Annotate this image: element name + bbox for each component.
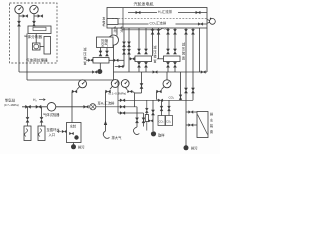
valve V25b [191, 88, 194, 93]
label float drain [210, 112, 214, 134]
svg-text:H₂汇流排: H₂汇流排 [158, 9, 173, 14]
valve V20 [173, 29, 176, 34]
svg-text:水封: 水封 [70, 124, 77, 129]
label to H2 manifold [98, 101, 116, 106]
wire pg3 stem up [82, 79, 84, 81]
label H2 flow arrow [33, 98, 45, 102]
label drop1 [114, 26, 117, 33]
sample dot [151, 131, 156, 136]
wire pg6 up [166, 72, 168, 80]
valve V22 [166, 62, 169, 73]
wire drop x199.5 [199, 28, 201, 72]
label regulator1 [83, 47, 87, 66]
valve V49 [149, 120, 153, 123]
valve V15 [130, 57, 135, 60]
junction dot sample inlet [97, 69, 102, 74]
wire inner crossing [122, 8, 124, 28]
label gas analyzer [24, 34, 42, 39]
valve V26 [99, 51, 102, 56]
svg-text:置: 置 [210, 129, 213, 134]
wire trap drain [73, 143, 75, 145]
water seal bottle WS1 [24, 122, 31, 140]
wire x143.5 drop [143, 113, 145, 127]
gas analyzer box U1 [28, 26, 51, 34]
svg-text:(0.1~0.3MPa): (0.1~0.3MPa) [109, 92, 127, 96]
label vent atmosphere [112, 135, 123, 140]
wire drop x129 [128, 28, 130, 72]
wire stub x158.5 [158, 28, 160, 59]
svg-text:(0.7~1MPa): (0.7~1MPa) [4, 103, 19, 107]
label regulator3 [182, 42, 186, 61]
valve V16 [137, 62, 140, 73]
pressure gauge PG2 [30, 5, 38, 19]
valve V10 [122, 49, 125, 54]
label H2 manifold [157, 9, 178, 14]
valve V39 [84, 105, 89, 108]
wire pg6 stem [161, 87, 164, 90]
valve V55 [62, 130, 66, 133]
valve V38 [36, 105, 41, 108]
wire trap out arrow [58, 130, 62, 132]
wire sample return horizontal [27, 79, 118, 81]
valve V5 [92, 71, 97, 74]
valve V34b [128, 90, 135, 93]
CO2 meter box1 [158, 116, 165, 126]
svg-text:气体试验器: 气体试验器 [43, 112, 60, 117]
generator machine box [107, 19, 118, 25]
valve V33 [72, 90, 77, 93]
label to circulating water [47, 127, 61, 137]
vent1 loop [103, 131, 109, 138]
svg-text:汽轮发电机: 汽轮发电机 [134, 0, 154, 6]
manifold M2 [135, 56, 152, 62]
wire upper return [114, 71, 208, 73]
wire bottle1 drop [27, 107, 29, 117]
blower fan F1 [90, 104, 96, 110]
drain dot D2 [184, 145, 189, 150]
valve V24b [184, 88, 187, 93]
svg-text:置: 置 [153, 58, 156, 63]
wire x137 drop [136, 107, 138, 127]
svg-text:CO₂: CO₂ [166, 120, 171, 124]
wire CO2 manifold [112, 23, 207, 25]
valve V21 [173, 49, 176, 54]
valve V52 [168, 106, 171, 111]
wire pg4 drop [105, 92, 107, 107]
valve V6 on H2 line [136, 11, 141, 14]
wire pump to column [40, 46, 44, 48]
svg-text:取样: 取样 [158, 133, 165, 138]
svg-text:至H₂汇流排: 至H₂汇流排 [98, 101, 116, 106]
valve V37 [25, 105, 30, 108]
wire blower down [113, 45, 115, 80]
label generator [102, 16, 105, 28]
valve V40 [120, 99, 125, 102]
wire sg1 feed [146, 100, 148, 114]
wire x153 drop [152, 100, 154, 131]
wire line y100 [118, 99, 193, 101]
wire drop x124 [123, 28, 125, 67]
svg-text:压缩: 压缩 [101, 38, 108, 43]
wire pg3 stem [77, 87, 80, 90]
wire mid link [115, 66, 124, 68]
wire drop x180.5 [180, 72, 182, 100]
svg-text:空气: 空气 [101, 42, 108, 47]
wire m3 left stub [157, 58, 164, 60]
enclosure gas-analysis cabinet (dashed) [10, 3, 58, 63]
pressure gauge PG6 [163, 80, 171, 88]
generator enclosure box [107, 8, 207, 29]
valve V47 [135, 118, 138, 123]
vacuum pump P2 [207, 18, 215, 25]
label sample [158, 133, 165, 138]
valve V54 [186, 124, 197, 127]
blower B1 [108, 35, 119, 46]
valve VS2 [157, 29, 160, 34]
svg-text:外: 外 [120, 29, 123, 33]
drain dot D1 [71, 144, 76, 149]
wire PG2 to analyzer [33, 19, 35, 26]
vent1 arrow [104, 107, 107, 131]
wire drop x193 [192, 28, 194, 100]
wire m1 down [99, 63, 101, 69]
wire pg6 drop [157, 92, 158, 101]
valve V36 [140, 83, 143, 88]
label pressure range [109, 92, 127, 96]
svg-text:置: 置 [83, 60, 86, 65]
float drain tank FT1 [197, 112, 208, 138]
svg-text:排污: 排污 [78, 145, 85, 150]
valve V31 [153, 71, 158, 74]
valve V7 on H2 line [196, 11, 201, 14]
valve V42 [120, 112, 125, 115]
label drain2 [191, 146, 198, 151]
valve V25 [191, 29, 194, 34]
valve V14 [144, 49, 147, 54]
valve V9 [122, 42, 125, 47]
label CO2 small [169, 95, 176, 99]
valve V32 [201, 71, 206, 74]
wire dashed machine line [112, 18, 207, 20]
label CO2 manifold [149, 20, 176, 25]
valve V53 [186, 111, 197, 114]
label drop2 [120, 26, 123, 33]
wire drop x139 [138, 28, 140, 49]
wire drop x168 [167, 28, 169, 49]
svg-text:排污: 排污 [191, 146, 198, 151]
label H2 station [4, 98, 19, 108]
valve V44 [179, 95, 182, 100]
valve V2 [17, 21, 20, 26]
wire sample return drop [26, 34, 28, 81]
valve V17 [144, 62, 147, 73]
svg-text:内: 内 [114, 29, 117, 33]
wire PG1 drop [18, 19, 20, 72]
wire drop x112 [111, 28, 113, 36]
valve V45 [26, 117, 29, 122]
valve V28 [86, 59, 93, 62]
compressed air box [97, 37, 114, 48]
wire tank drain [185, 144, 187, 147]
wire drop x146 [145, 28, 147, 49]
valve V27 [105, 51, 108, 56]
valve V29 [109, 59, 124, 62]
valve V41 [120, 105, 125, 108]
wire drop x175 [174, 28, 176, 49]
wire analyzer to pump [35, 34, 37, 44]
wire pg4 stem [110, 86, 112, 89]
valve V46 [40, 117, 43, 122]
wire pg3 drop [71, 92, 73, 123]
vent2 loop [133, 127, 139, 135]
valve V4 [32, 21, 35, 26]
valve V19 [166, 49, 169, 54]
svg-text:CO₂汇流排: CO₂汇流排 [150, 21, 167, 26]
CO2 meter box2 [166, 116, 173, 126]
valve V13 [137, 49, 140, 54]
pressure gauge PG4 [111, 80, 119, 88]
label turbo generator [134, 0, 154, 6]
valve V48 [142, 118, 145, 123]
pressure gauge PG1 [15, 5, 23, 19]
wire v5 to inlet dot [96, 71, 99, 73]
pressure gauge PG3 [79, 80, 87, 88]
valve V56 [145, 108, 148, 113]
valve V43 [158, 99, 163, 102]
wire drop x117 [116, 28, 118, 36]
wire x118 connector [117, 80, 119, 113]
wire air drop b [106, 48, 108, 52]
svg-text:入口: 入口 [49, 133, 56, 137]
flow meter FM1 [47, 103, 56, 112]
wire drop x186 [185, 28, 187, 145]
drain trap box DT1 [67, 123, 82, 143]
label vent CO2 [164, 27, 171, 31]
wire pg5 stem [125, 87, 127, 89]
valve V35 [157, 90, 162, 93]
label gas pre-treater [26, 58, 48, 63]
wire PG1 line horizontal run [19, 71, 92, 73]
trap internals [69, 132, 78, 140]
svg-text:CO₂: CO₂ [169, 95, 176, 99]
manifold M3 [164, 56, 181, 62]
wire stub x152.5 [152, 28, 154, 56]
wire H2 supply line [22, 106, 88, 108]
svg-text:置: 置 [182, 55, 185, 60]
wire vent line [122, 28, 163, 30]
manifold M1 [93, 58, 109, 64]
label flow meter [43, 112, 60, 117]
svg-text:CO₂: CO₂ [159, 120, 164, 124]
pressure gauge PG5 [121, 80, 129, 88]
valve V51 [160, 106, 163, 111]
valve V11 [127, 42, 130, 47]
svg-text:制氢站: 制氢站 [5, 98, 16, 103]
svg-text:气体预处理器: 气体预处理器 [26, 58, 48, 63]
svg-text:机: 机 [102, 22, 105, 27]
wire co2 meter feed2 [168, 100, 170, 115]
valve V24 [184, 29, 187, 34]
valve V50 [151, 110, 154, 115]
valve V23 [173, 62, 176, 73]
svg-text:排大气: 排大气 [112, 135, 123, 140]
sight glass SG1 [145, 115, 148, 131]
wire line y113 [118, 112, 144, 114]
wire air drop a [100, 48, 102, 52]
label drain1 [78, 145, 85, 150]
wire x141.5 vert [135, 72, 142, 107]
valve V1 [19, 15, 28, 18]
valve V12 [127, 49, 130, 54]
valve V3 [34, 15, 43, 18]
wire drop x207 [206, 28, 208, 72]
gas pre-treat column T1 [44, 37, 51, 55]
water seal bottle WS2 [38, 122, 45, 140]
label regulator2 [153, 45, 157, 64]
wire H2 manifold [128, 12, 207, 14]
wire after fan [96, 106, 137, 108]
valve V34 [106, 90, 111, 93]
wire co2 meter feed1 [161, 100, 163, 115]
label compressed air [101, 38, 108, 47]
valve VS1 [151, 29, 154, 34]
valve V8 on CO2 line [198, 23, 203, 26]
valve V30 [119, 65, 124, 68]
wire bottle2 drop [41, 107, 43, 117]
sample pump P1 [33, 43, 41, 50]
valve V18 [166, 29, 169, 34]
